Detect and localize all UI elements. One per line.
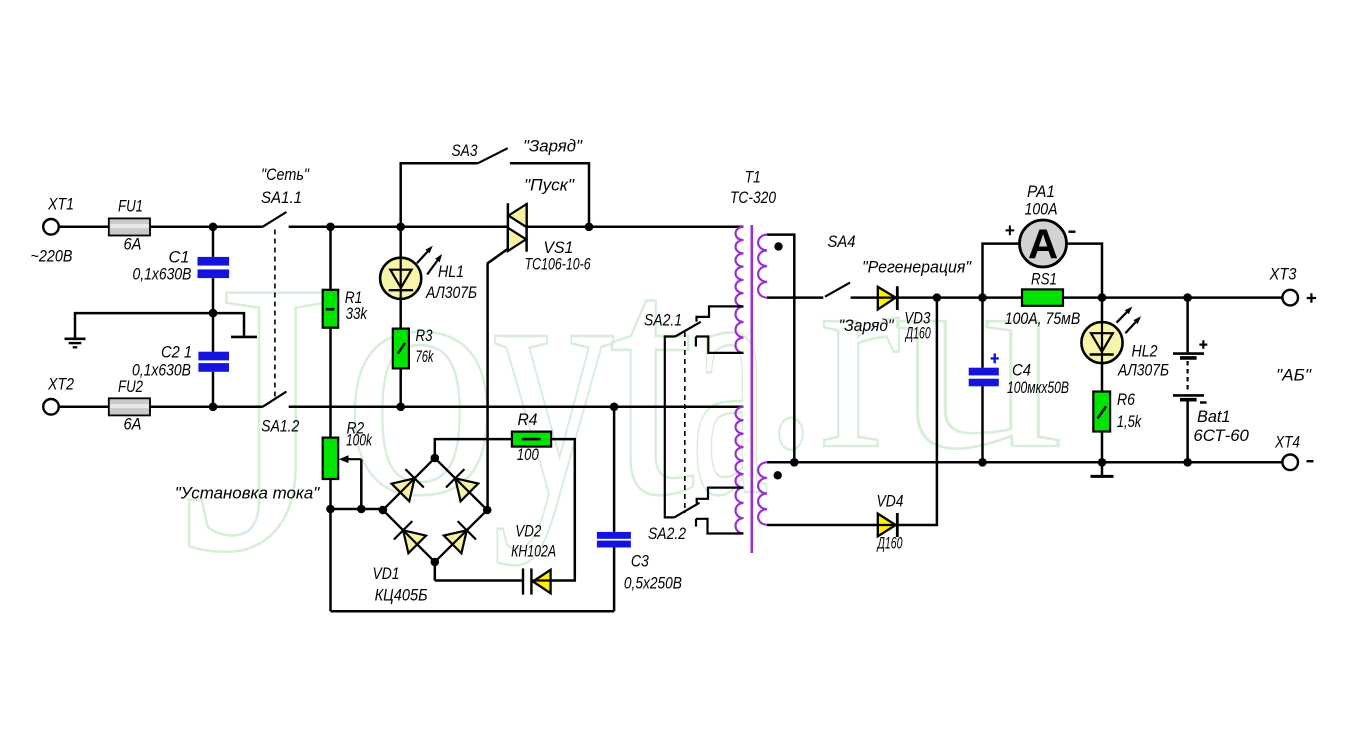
node C4 bottom (978, 458, 987, 467)
battery Bat1 (1186, 298, 1189, 353)
node center tap (790, 458, 799, 467)
node bridge top (431, 454, 440, 463)
svg-text:C2 1: C2 1 (161, 343, 192, 362)
svg-text:"Заряд": "Заряд" (523, 137, 583, 156)
svg-text:100А: 100А (1025, 199, 1058, 218)
transformer core (750, 225, 753, 553)
svg-text:R4: R4 (518, 410, 538, 429)
secondary upper terminals (767, 235, 794, 463)
svg-text:SA2.1: SA2.1 (644, 311, 682, 330)
wire FU1 to SA1.1 (150, 226, 263, 229)
ground chassis bar (231, 336, 257, 339)
fuse FU1 (109, 218, 150, 235)
wire SA1.2 to lower bus (289, 406, 744, 409)
svg-text:FU1: FU1 (118, 197, 143, 216)
center tap rail (767, 461, 1282, 464)
svg-text:T1: T1 (745, 167, 761, 186)
svg-text:SA2.2: SA2.2 (648, 524, 686, 543)
wire C1 column (212, 227, 215, 257)
node R2 bottom junction (326, 505, 335, 514)
svg-text:XT3: XT3 (1269, 264, 1297, 283)
polarity dot upper (774, 242, 782, 250)
diode VD1 top-left (392, 478, 415, 501)
SA2.1 contact 2 (696, 337, 744, 353)
svg-text:a: a (691, 189, 769, 566)
svg-text:XT4: XT4 (1274, 432, 1300, 451)
resistor R3 (393, 329, 409, 369)
svg-text:XT1: XT1 (47, 195, 74, 214)
primary tap 3 to SA2.2 (697, 488, 744, 504)
svg-text:76k: 76k (416, 347, 435, 366)
mechanical link SA1 (274, 230, 276, 400)
ground chassis right (1101, 462, 1104, 475)
svg-text:АЛ307Б: АЛ307Б (1117, 361, 1169, 380)
node Bat1 bottom (1183, 458, 1192, 467)
wire to earth ground (75, 313, 213, 338)
bridge rectifier VD1 (383, 458, 487, 562)
svg-text:0,5х250В: 0,5х250В (624, 574, 682, 593)
wire VD2 to bridge bottom (435, 579, 522, 582)
svg-text:HL2: HL2 (1132, 342, 1158, 361)
node C4 top (978, 293, 987, 302)
wire XT2 to FU2 (59, 406, 109, 409)
switch SA2.1 blade (675, 322, 701, 337)
node R3 bottom (396, 403, 405, 412)
svg-text:Д160: Д160 (904, 324, 931, 343)
wire XT1 to FU1 (59, 226, 109, 229)
mechanical link SA2 (684, 332, 686, 513)
wire top bus right of VS1 (527, 226, 744, 229)
switch SA1.2 (263, 392, 287, 407)
wire R6 to rail (1101, 432, 1104, 463)
terminal XT1 (43, 219, 59, 235)
SA2.2 contact 2 (696, 519, 744, 534)
svg-text:АЛ307Б: АЛ307Б (425, 283, 477, 302)
svg-text:6A: 6A (124, 415, 142, 434)
node VD3-VD4 junction (933, 293, 941, 301)
wire through VD4 (878, 524, 897, 526)
shunt RS1 (1022, 289, 1063, 305)
capacitor C1 (198, 257, 230, 266)
capacitor C3 (613, 407, 616, 532)
switch SA2.2 blade (674, 503, 699, 518)
wire R2 bottom (329, 479, 332, 611)
node Bat1 top (1183, 293, 1192, 302)
svg-text:ТС-320: ТС-320 (730, 188, 776, 207)
wire HL2 to R6 (1101, 363, 1104, 391)
wire FU2 to SA1.2 (150, 406, 263, 409)
svg-text:6СТ-60: 6СТ-60 (1193, 426, 1249, 445)
svg-text:R6: R6 (1117, 390, 1135, 409)
svg-text:SA1.1: SA1.1 (261, 188, 302, 207)
terminal XT3 (1282, 290, 1298, 306)
node R6 bottom (1098, 458, 1107, 467)
capacitor C4 (981, 298, 984, 368)
node bridge bottom (431, 558, 440, 567)
fuse FU2 (109, 398, 150, 415)
node C1-C2 midpoint (209, 309, 218, 318)
SA2 pole wire (665, 337, 675, 518)
diode VD1 bottom-left (403, 530, 426, 553)
ground earth symbol (65, 337, 86, 340)
svg-text:100А, 75мВ: 100А, 75мВ (1005, 309, 1081, 328)
node wiper junction (357, 505, 366, 514)
primary winding upper (736, 227, 744, 353)
primary tap 1 to SA2.1 (697, 306, 744, 321)
wire C2 to lower bus (212, 372, 215, 407)
wire HL1 to R3 (399, 299, 402, 329)
svg-text:RS1: RS1 (1031, 269, 1057, 288)
secondary winding upper (758, 235, 767, 298)
svg-text:t: t (609, 189, 696, 566)
resistor R2 potentiometer (323, 438, 339, 479)
node C2 bottom junction (209, 403, 218, 412)
svg-text:"Заряд": "Заряд" (839, 316, 895, 335)
resistor R4 (435, 439, 512, 458)
primary winding lower (736, 407, 744, 534)
diode VD1 bottom-right (444, 530, 467, 553)
svg-text:VD2: VD2 (515, 522, 541, 541)
wire mid to C2 (212, 313, 215, 352)
thyristor VS1 (507, 203, 510, 249)
switch SA1.1 (263, 212, 287, 227)
watermark joyta.ru (181, 189, 1064, 633)
svg-text:"Сеть": "Сеть" (261, 165, 310, 184)
svg-text:SA4: SA4 (828, 232, 856, 251)
svg-text:R3: R3 (416, 326, 433, 345)
svg-text:XT2: XT2 (47, 375, 74, 394)
dinistor VD2 (533, 570, 551, 593)
node R1 top (326, 223, 335, 232)
output wire to RS1 (937, 296, 1022, 299)
wire R2 to bridge left (331, 508, 383, 511)
svg-text:100k: 100k (346, 431, 373, 450)
capacitor C2 1 (198, 352, 229, 361)
svg-text:"АБ": "АБ" (1276, 365, 1312, 384)
wire secondary lower to VD4 (767, 524, 878, 527)
svg-text:VD1: VD1 (373, 564, 400, 583)
polarity dot lower (774, 471, 782, 479)
node SA3 right (585, 223, 594, 232)
switch SA4 (825, 283, 850, 297)
terminal XT2 (43, 399, 59, 415)
node C1 top junction (209, 223, 218, 232)
wire through VD2 (531, 579, 551, 581)
svg-text:A: A (1028, 221, 1058, 268)
svg-text:100: 100 (517, 445, 539, 464)
svg-text:SA1.2: SA1.2 (261, 417, 299, 436)
wire R4 to VD2 (551, 439, 575, 580)
LED HL1 (399, 227, 402, 258)
node bridge right (483, 506, 492, 515)
wire to chassis ground (213, 313, 244, 336)
ammeter PA1 branch (983, 244, 1020, 298)
diode VD3 (878, 287, 896, 310)
svg-text:РА1: РА1 (1027, 182, 1055, 201)
node HL1 top (396, 223, 405, 232)
wire through VD3 (878, 297, 897, 299)
svg-text:C3: C3 (631, 552, 649, 571)
wire bottom return (331, 610, 615, 613)
switch SA3 (401, 163, 478, 227)
svg-text:1,5k: 1,5k (1117, 412, 1143, 431)
svg-text:Bat1: Bat1 (1197, 407, 1231, 426)
svg-text:SA3: SA3 (452, 141, 478, 160)
node HL2 top (1098, 293, 1107, 302)
svg-text:"Регенерация": "Регенерация" (862, 258, 972, 277)
svg-text:C4: C4 (1012, 360, 1031, 379)
svg-text:C1: C1 (169, 247, 190, 266)
svg-text:J: J (181, 201, 333, 633)
diode VD1 top-right (455, 478, 478, 501)
node bridge left (379, 506, 388, 515)
svg-text:0,1х630В: 0,1х630В (133, 265, 192, 284)
svg-text:6A: 6A (124, 235, 142, 254)
svg-text:КЦ405Б: КЦ405Б (375, 586, 428, 605)
secondary winding lower (758, 462, 767, 524)
svg-text:FU2: FU2 (118, 377, 143, 396)
wire bridge edges overlay (383, 458, 487, 562)
resistor R6 (1093, 392, 1110, 432)
node C3 top (610, 403, 619, 412)
wire SA1.1 to bus (289, 226, 508, 229)
svg-text:"Пуск": "Пуск" (524, 176, 575, 195)
svg-text:33k: 33k (346, 304, 369, 323)
wire R1 to R2 (329, 328, 332, 438)
svg-text:"Установка тока": "Установка тока" (175, 484, 320, 503)
wire R3 to bus (399, 368, 402, 406)
terminal XT4 (1282, 455, 1298, 471)
LED HL2 (1101, 298, 1104, 322)
svg-text:HL1: HL1 (438, 262, 464, 281)
svg-text:~220В: ~220В (31, 247, 73, 266)
svg-text:VD4: VD4 (877, 492, 904, 511)
svg-text:100мкх50В: 100мкх50В (1007, 378, 1069, 397)
svg-text:ТС106-10-6: ТС106-10-6 (525, 254, 591, 273)
svg-text:КН102А: КН102А (511, 542, 556, 561)
wiper arrow R2 (344, 458, 361, 460)
diode VD4 (878, 514, 896, 537)
wire RS1 to XT3 (1063, 296, 1282, 299)
svg-text:Д160: Д160 (876, 534, 903, 553)
resistor R1 (329, 227, 332, 290)
